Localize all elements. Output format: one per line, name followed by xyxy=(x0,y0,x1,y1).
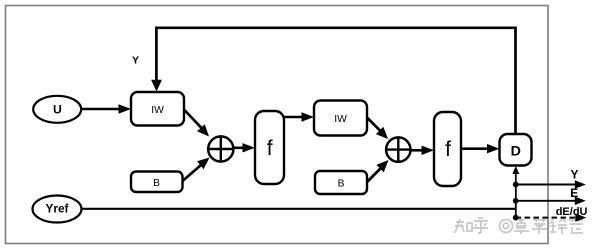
svg-text:dE/dU: dE/dU xyxy=(556,206,588,218)
svg-text:B: B xyxy=(338,178,345,189)
svg-text:f: f xyxy=(267,137,273,160)
wire arrow output Y xyxy=(516,180,586,188)
wire arrow f1 to IW2 xyxy=(284,112,314,121)
wire arrow sum2 to f2 xyxy=(411,146,434,155)
卓 xyxy=(514,218,529,234)
svg-text:E: E xyxy=(570,186,578,200)
watermark 知乎 @卓荦锋芒 xyxy=(455,218,583,234)
wire arrow sum1 to f1 xyxy=(233,143,255,152)
svg-text:Y: Y xyxy=(570,168,578,182)
wire feedback loop from D top to IW1 top xyxy=(151,28,515,134)
box f2 (transfer function) xyxy=(434,112,461,186)
svg-text:IW: IW xyxy=(334,114,347,125)
box D (delay) xyxy=(500,134,532,166)
svg-text:f: f xyxy=(445,138,451,161)
svg-text:Yref: Yref xyxy=(46,202,69,216)
box IW1 xyxy=(131,92,184,126)
wire arrow B2 to sum2 xyxy=(367,160,389,182)
box f1 (transfer function) xyxy=(255,111,284,184)
box B2 xyxy=(315,171,367,194)
svg-text:D: D xyxy=(511,143,521,159)
svg-text:Y: Y xyxy=(132,54,139,66)
wire arrow U to IW1 xyxy=(82,104,132,113)
node Yref (reference ellipse) xyxy=(33,196,82,223)
wire arrow B1 to sum1 xyxy=(183,158,210,182)
box B1 xyxy=(131,172,183,193)
wire dashed arrow output dE/dU xyxy=(516,213,587,221)
summing junction sum2 xyxy=(386,137,410,161)
wire Yref to vertical bus xyxy=(82,208,516,210)
junction dot E branch xyxy=(513,198,519,204)
svg-text:B: B xyxy=(153,178,160,189)
@ xyxy=(500,220,513,233)
wire arrow IW1 to sum1 xyxy=(184,110,209,137)
荦 xyxy=(532,218,547,234)
node U (input ellipse) xyxy=(33,96,81,123)
svg-text:IW: IW xyxy=(151,105,164,116)
summing junction sum1 xyxy=(208,136,233,161)
wire vertical bus below D with up arrow xyxy=(512,166,519,218)
junction dot Y branch xyxy=(513,182,519,188)
wire arrow output E xyxy=(516,197,586,205)
svg-text:U: U xyxy=(53,103,62,117)
乎 xyxy=(473,218,488,233)
wire arrow IW2 to sum2 xyxy=(367,118,388,140)
知 xyxy=(455,219,472,233)
box IW2 xyxy=(314,101,367,136)
锋 xyxy=(550,219,567,234)
芒 xyxy=(569,218,583,233)
junction dot dE/dU branch xyxy=(513,215,519,221)
wire arrow f2 to D xyxy=(461,144,500,153)
